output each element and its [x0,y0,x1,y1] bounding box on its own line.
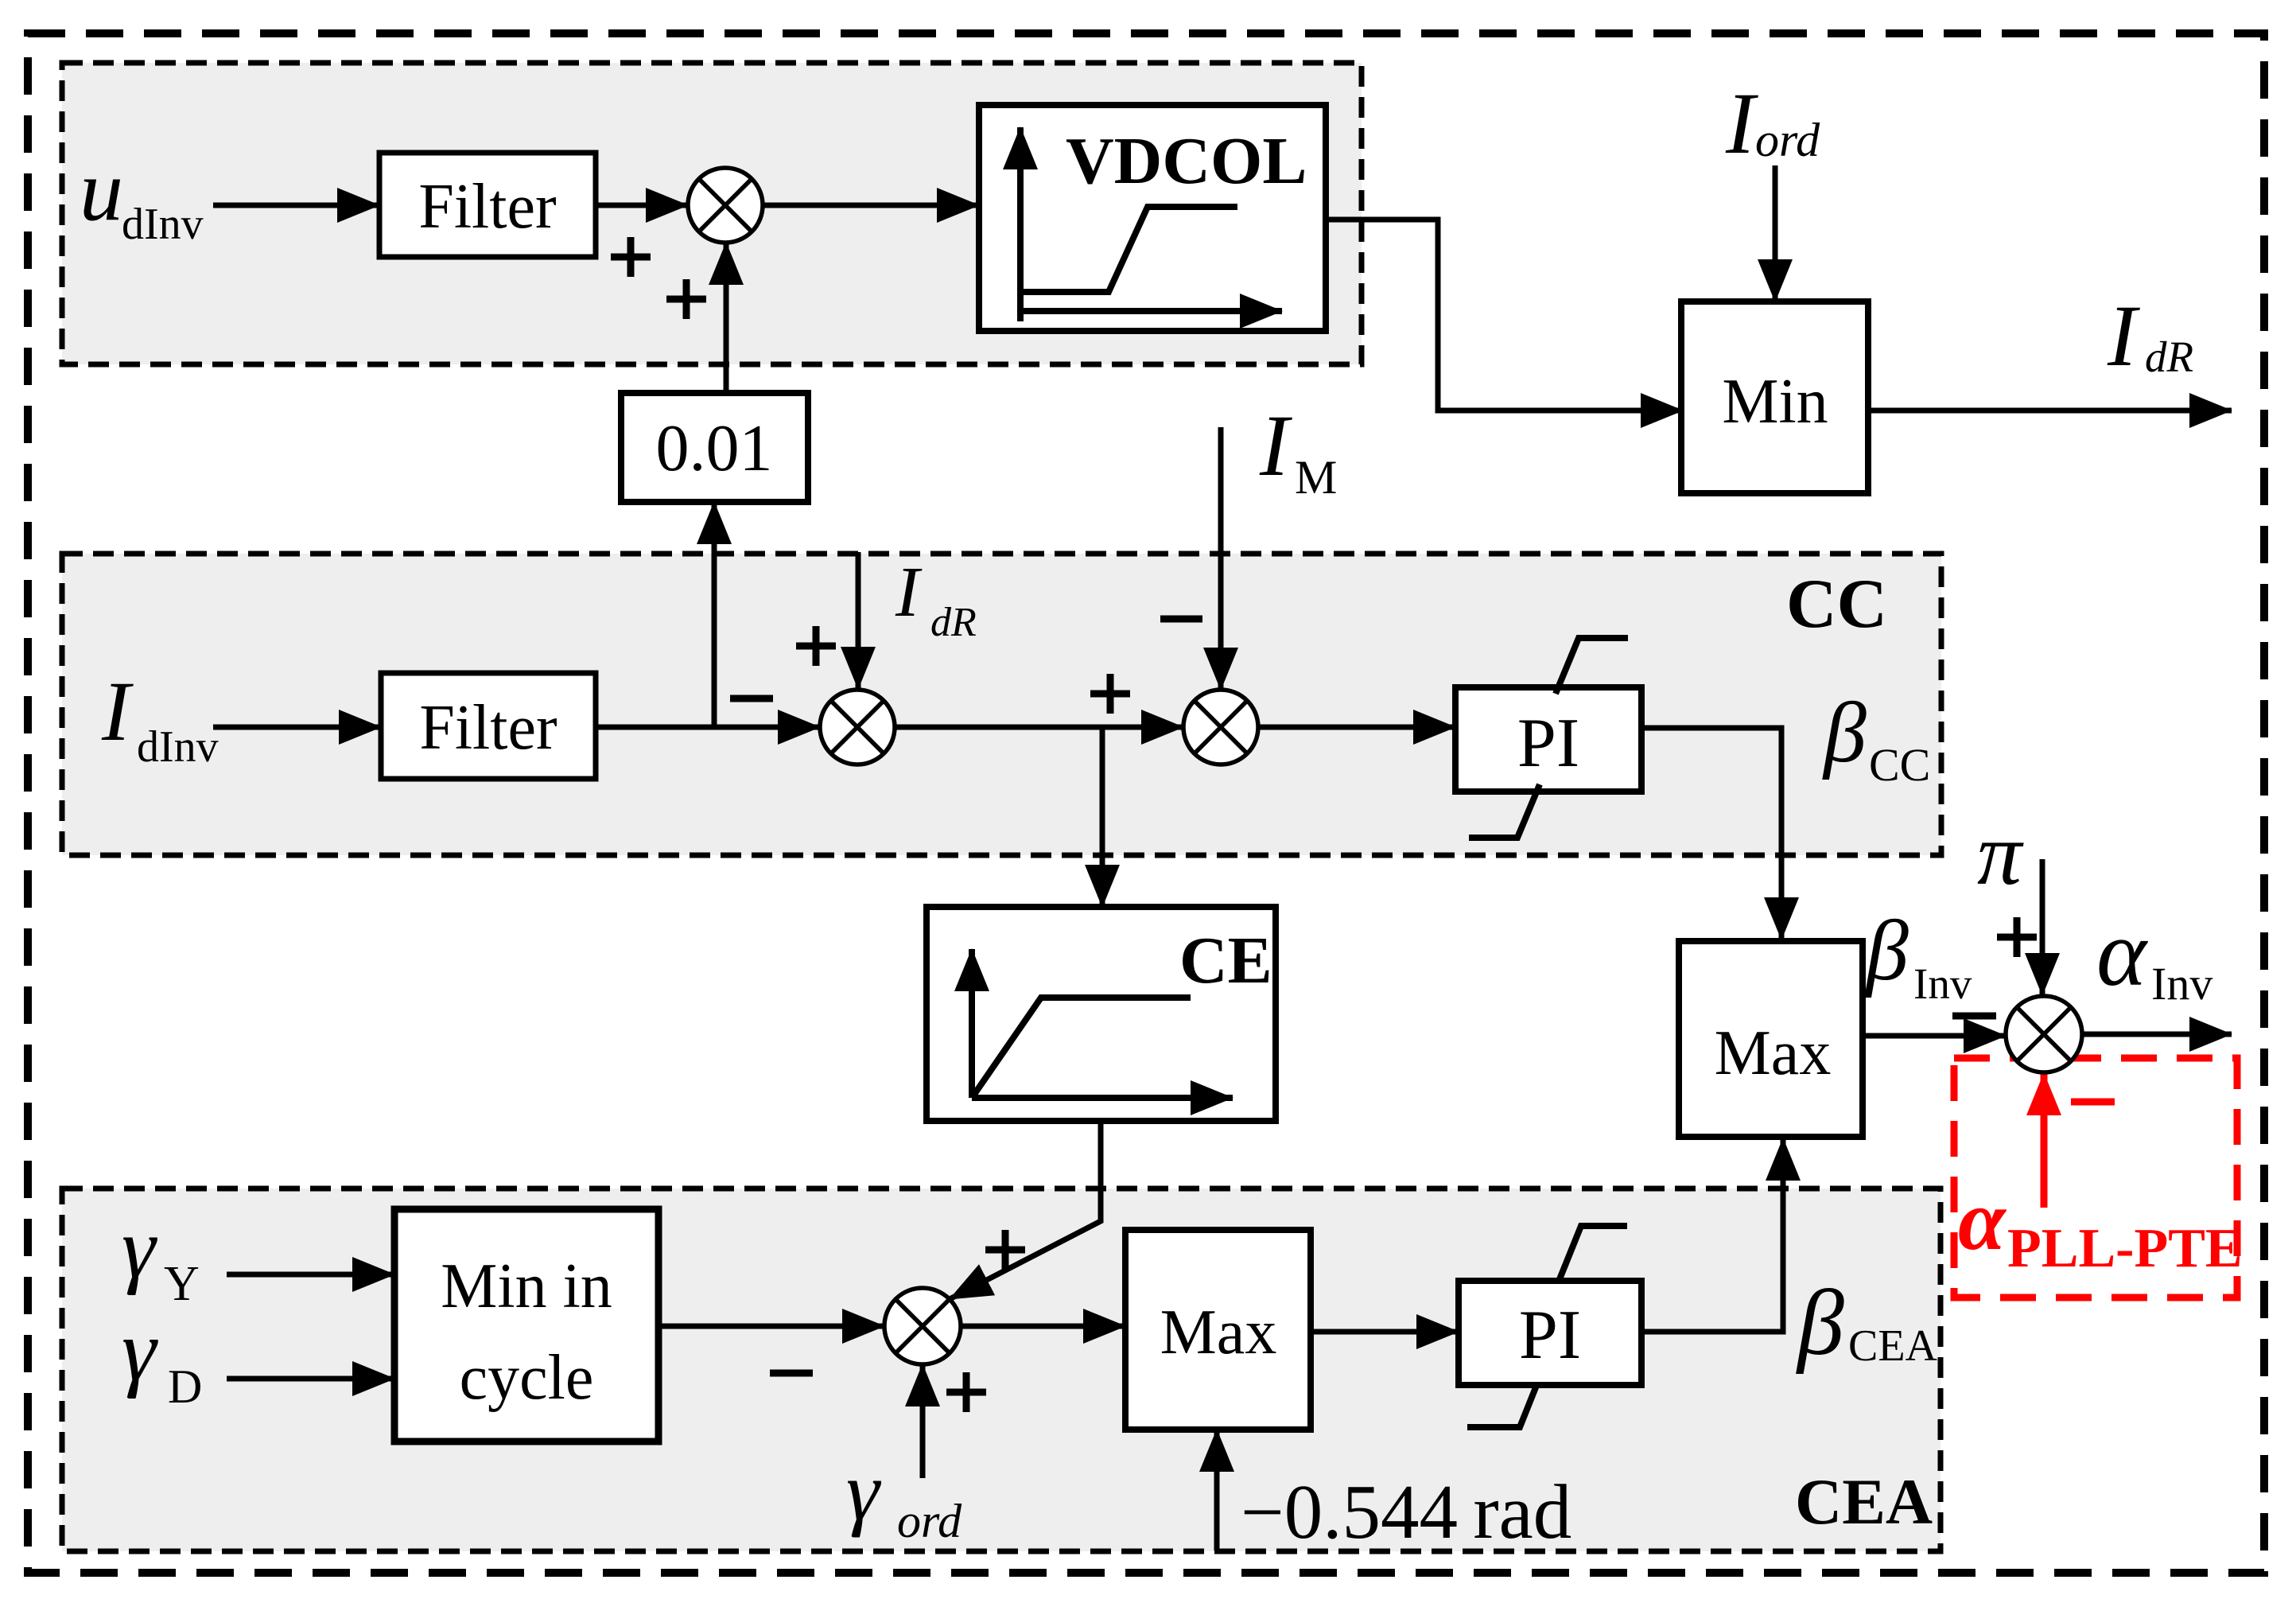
svg-text:PLL-PTE: PLL-PTE [2007,1218,2243,1279]
minus sign beta_Inv into S5 [1952,1013,1996,1020]
wire VDCOL to Min [1326,220,1683,410]
wire 0.01 to S1 [724,243,729,393]
VDCOL vertical axis [1017,127,1024,321]
wire S4 to Max CEA [961,1324,1125,1329]
wire PI2 up to Max right [1641,1138,1783,1332]
red dashed box PLL-PTE [1954,1058,2237,1298]
block Filter (CC) [381,673,596,779]
svg-text:PI: PI [1519,1297,1581,1374]
CEA section gray dashed box [62,1189,1941,1551]
svg-text:−0.544 rad: −0.544 rad [1241,1469,1571,1554]
wire S1 to VDCOL [763,203,979,208]
block Min in cycle [394,1209,658,1442]
wire gamma_ord into S4 [920,1364,926,1478]
PI CC limiter bottom mark [1469,784,1540,838]
wire Filter to summer S1 [596,203,688,208]
block Min [1681,302,1868,493]
svg-text:Inv: Inv [2151,958,2212,1010]
summer S4 [884,1288,961,1364]
svg-text:I: I [101,665,134,759]
svg-text:D: D [168,1360,202,1413]
svg-text:I: I [2107,287,2140,384]
VDCOL horizontal axis [1020,308,1282,314]
svg-text:cycle: cycle [460,1343,594,1413]
wire Min in cycle to S4 [658,1324,884,1329]
wire Max to S5 [1863,1033,2006,1039]
block VDCOL [979,105,1326,331]
svg-text:π: π [1977,805,2024,904]
plus sign I_dR into S2 [796,626,836,666]
summer S1 [688,168,763,243]
CC section gray dashed box [62,554,1941,855]
wire junction up into 0.01 [712,502,717,727]
minus sign S2 horizontal input [730,695,773,702]
PI CC limiter top mark [1556,638,1628,694]
svg-text:Filter: Filter [419,693,557,763]
svg-text:Max: Max [1715,1018,1832,1088]
svg-text:M: M [1295,451,1337,504]
svg-text:dInv: dInv [122,200,204,249]
block CE [927,907,1276,1121]
wire I_M into S3 [1218,427,1224,690]
svg-text:Y: Y [164,1257,200,1311]
svg-text:Min in: Min in [441,1251,612,1321]
svg-text:γ: γ [846,1445,882,1538]
svg-text:dInv: dInv [137,722,219,772]
svg-text:β: β [1864,904,1909,998]
svg-text:CE: CE [1179,924,1272,998]
block Max (CEA) [1125,1230,1311,1430]
plus sign CE into S4 [985,1230,1025,1270]
summer S2 [820,690,895,765]
wire junction down to CE [1100,727,1105,907]
svg-text:I: I [1725,75,1758,172]
block Max (right) [1679,941,1863,1137]
wire I_dInv to Filter2 [213,725,381,730]
wire gamma_D to Min in cycle [227,1376,394,1382]
svg-text:Max: Max [1160,1298,1277,1368]
wire I_dR into S2 [856,552,861,689]
wire u_dInv to Filter [213,203,379,208]
red wire alpha_PLL-PTE into S5 [2041,1073,2048,1208]
svg-text:ord: ord [1755,114,1820,166]
CE horizontal axis [972,1095,1233,1101]
plus sign S1 horizontal input [611,237,651,277]
PI CEA limiter bottom mark [1467,1383,1537,1427]
svg-text:I: I [1259,397,1292,494]
CE vertical axis [969,949,975,1098]
svg-text:I: I [895,553,923,632]
wire CE down and diagonal into S4 [950,1121,1101,1299]
VDCOL section gray dashed box [62,63,1362,364]
summer S5 [2006,996,2082,1072]
plus sign S1 vertical input [666,279,706,319]
block PI (CEA) [1459,1281,1641,1385]
wire Filter2 to S2 [596,725,820,730]
svg-text:CEA: CEA [1848,1321,1938,1371]
wire Max CEA to PI2 [1311,1329,1459,1335]
svg-text:β: β [1796,1270,1844,1375]
svg-text:Inv: Inv [1913,959,1972,1008]
svg-text:dR: dR [930,600,977,645]
block Filter (top) [379,153,596,257]
block 0.01 [621,393,808,502]
CE characteristic curve [972,998,1191,1098]
minus sign Min-in-cycle into S4 [770,1370,813,1377]
wire S5 to alpha_Inv output [2082,1032,2232,1037]
svg-text:α: α [2096,900,2148,1006]
svg-text:CC: CC [1786,566,1887,643]
svg-text:CEA: CEA [1795,1465,1933,1538]
wire S2 to S3 [895,725,1183,730]
PI CEA limiter top mark [1560,1226,1627,1279]
svg-text:VDCOL: VDCOL [1066,124,1307,198]
summer S3 [1183,690,1258,765]
block PI (CC) [1455,687,1641,792]
svg-text:γ: γ [122,1201,157,1296]
plus sign S3 horizontal input [1090,674,1130,714]
wire -0.544 rad into Max CEA [1214,1430,1220,1550]
svg-text:α: α [1958,1173,2007,1268]
plus sign gamma_ord into S4 [946,1372,986,1412]
wire Min to I_dR output [1868,408,2232,414]
svg-text:CC: CC [1869,739,1930,791]
svg-text:PI: PI [1517,705,1579,782]
wire PI to Max right [1641,728,1781,940]
svg-text:dR: dR [2145,333,2193,381]
svg-text:β: β [1822,686,1867,780]
svg-text:Filter: Filter [418,172,556,242]
wire I_ord into Min [1773,165,1778,302]
wire gamma_Y to Min in cycle [227,1272,394,1278]
svg-text:γ: γ [122,1302,158,1399]
svg-text:0.01: 0.01 [656,411,773,485]
minus sign I_M into S3 [1160,616,1202,623]
red minus sign [2071,1099,2115,1106]
svg-text:ord: ord [897,1495,962,1547]
plus sign pi into S5 [1997,917,2037,957]
VDCOL characteristic curve [1022,207,1237,292]
svg-text:u: u [80,142,123,239]
svg-text:Min: Min [1722,367,1828,437]
wire pi into S5 [2040,859,2045,995]
wire S3 to PI [1258,725,1455,730]
